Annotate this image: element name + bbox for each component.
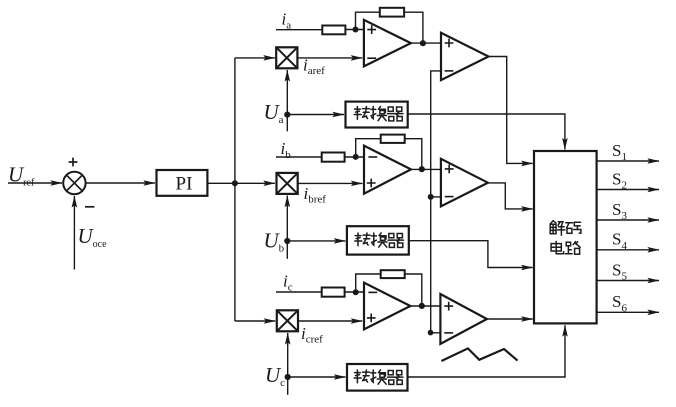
svg-text:S2: S2 xyxy=(612,169,627,191)
svg-text:ic: ic xyxy=(283,272,293,294)
svg-text:ia: ia xyxy=(282,10,292,32)
svg-text:PI: PI xyxy=(176,174,193,195)
svg-text:S4: S4 xyxy=(612,230,627,252)
svg-text:S3: S3 xyxy=(612,200,627,222)
svg-text:iaref: iaref xyxy=(303,56,325,78)
svg-text:ibref: ibref xyxy=(304,184,327,206)
svg-text:ib: ib xyxy=(281,139,292,161)
svg-text:Ua: Ua xyxy=(264,100,284,126)
svg-text:Uc: Uc xyxy=(265,363,285,389)
svg-text:Uref: Uref xyxy=(8,162,35,188)
svg-text:S6: S6 xyxy=(612,292,627,314)
svg-text:icref: icref xyxy=(301,324,323,346)
svg-text:S5: S5 xyxy=(612,260,627,282)
svg-text:S1: S1 xyxy=(612,141,627,163)
svg-text:Ub: Ub xyxy=(264,229,285,255)
svg-text:Uoce: Uoce xyxy=(78,224,108,250)
